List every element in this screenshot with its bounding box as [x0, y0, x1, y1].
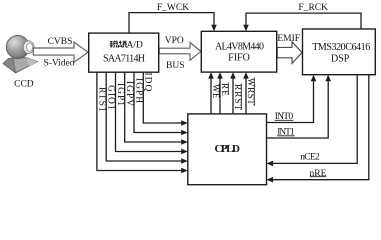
svg-text:IGPH: IGPH	[133, 78, 143, 104]
svg-text:F_RCK: F_RCK	[298, 3, 328, 13]
svg-text:FIFO: FIFO	[228, 52, 250, 63]
svg-text:EMIF: EMIF	[277, 34, 300, 44]
svg-text:VPO: VPO	[165, 36, 184, 46]
svg-text:A/D: A/D	[127, 41, 144, 51]
svg-text:CCD: CCD	[14, 80, 34, 90]
svg-text:AL4V8M440: AL4V8M440	[215, 41, 264, 52]
svg-text:BUS: BUS	[166, 61, 184, 71]
svg-text:nRE: nRE	[310, 169, 327, 179]
svg-text:IDQ: IDQ	[143, 73, 153, 93]
svg-text:RTS1: RTS1	[96, 87, 106, 113]
svg-text:IGP1: IGP1	[115, 83, 125, 107]
svg-text:TMS320C6416: TMS320C6416	[312, 42, 370, 53]
svg-text:GIO1: GIO1	[106, 85, 116, 111]
svg-text:SAA7114H: SAA7114H	[103, 53, 145, 64]
svg-text:DSP: DSP	[331, 53, 350, 64]
svg-text:nCE2: nCE2	[300, 153, 320, 163]
svg-text:S-Video: S-Video	[44, 59, 75, 69]
svg-text:IGPV: IGPV	[124, 81, 134, 107]
svg-text:CPLD: CPLD	[214, 143, 240, 155]
svg-text:F_WCK: F_WCK	[157, 3, 189, 13]
svg-text:CVBS: CVBS	[48, 37, 73, 47]
